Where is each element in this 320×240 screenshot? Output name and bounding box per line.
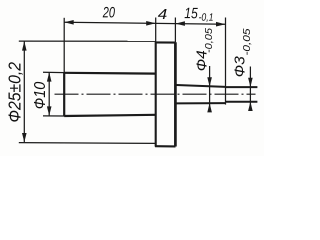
svg-text:Ф10: Ф10 [32,81,49,109]
svg-text:-0,05: -0,05 [203,28,215,53]
svg-text:20: 20 [102,4,115,21]
svg-text:15: 15 [184,5,198,22]
svg-text:-0,1: -0,1 [198,12,213,24]
svg-text:4: 4 [158,7,168,23]
svg-text:Ф3: Ф3 [231,56,248,78]
svg-text:Ф25±0,2: Ф25±0,2 [4,62,24,123]
svg-text:-0,05: -0,05 [241,28,253,55]
